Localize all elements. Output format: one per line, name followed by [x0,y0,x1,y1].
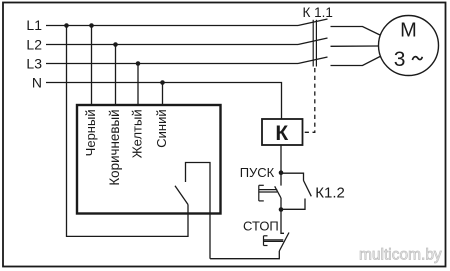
STOP button upper stub [281,210,284,234]
START button lower stub [280,198,282,210]
svg-text:L3: L3 [26,55,42,71]
svg-text:Синий: Синий [154,109,169,147]
STOP button blade [279,233,289,252]
wire black drop [91,26,93,107]
contact K1.2 upper lead [281,173,304,180]
wire STOP return to box [210,251,279,259]
svg-text:СТОП: СТОП [243,219,279,234]
START button actuator [259,185,277,201]
contact K1.2 lower lead [281,199,305,210]
control device box [77,105,221,214]
wire L3 bus [46,63,298,65]
internal relay contact wire [186,163,211,259]
svg-text:Желтый: Желтый [130,109,145,158]
svg-text:К1.2: К1.2 [315,185,345,202]
internal relay contact blade [175,186,188,205]
junction dot N-blue [160,80,165,85]
svg-text:К: К [275,122,288,145]
svg-text:M: M [400,20,417,42]
contact K1.2 blade [304,181,312,197]
wire coil to start node [280,145,282,173]
motor M circle [379,16,439,76]
wire motor phase V [331,45,379,47]
svg-text:L2: L2 [26,36,42,52]
wire N bus [46,83,282,120]
junction dot L1-black [89,23,94,28]
svg-text:N: N [32,74,42,90]
wire motor phase W [331,56,382,66]
svg-text:Черный: Черный [83,109,98,156]
svg-text:ПУСК: ПУСК [240,165,275,180]
svg-text:multicom.by: multicom.by [359,247,442,264]
contactor K1.1 blade L2 [298,38,328,45]
wire L1 to relay contact [67,26,189,237]
wire blue drop [162,83,164,107]
contactor K1.1 linkage bar [312,20,314,67]
svg-text:3: 3 [394,48,406,71]
coil K box [262,119,303,145]
START button blade [275,186,281,198]
wire L2 bus [46,44,298,46]
svg-text:L1: L1 [26,17,42,33]
contactor K1.1 blade L3 [298,57,328,64]
svg-text:К 1.1: К 1.1 [303,5,333,20]
junction node start-top [279,170,284,175]
wire brown drop [115,45,117,107]
wire yellow drop [137,64,139,107]
STOP button actuator [264,236,284,246]
wire motor phase U [331,27,382,36]
junction dot L2-brown [113,42,118,47]
START button upper stub [280,173,282,186]
wire L1 bus [46,25,298,27]
contactor K1.1 blade L1 [298,19,328,26]
dashed link K1.1 to coil [304,68,315,132]
junction node start-bottom [279,207,284,212]
svg-text:Коричневый: Коричневый [107,109,122,185]
junction dot L1-left [64,23,69,28]
junction dot L3-yellow [136,61,141,66]
